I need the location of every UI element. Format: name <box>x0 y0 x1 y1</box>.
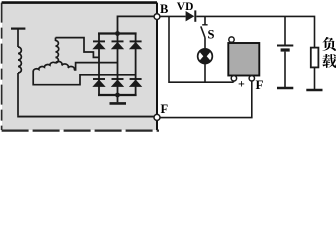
diode VD5 (lower middle) <box>112 78 124 80</box>
wire B branch down to lower rail <box>169 16 234 82</box>
wire regulator F down and to alternator F <box>160 81 252 118</box>
wire top to switch <box>204 16 206 24</box>
resistor load <box>311 48 319 68</box>
field winding rotor coil <box>18 30 21 116</box>
label 负载 (load) <box>322 37 336 68</box>
svg-text:F: F <box>161 102 169 116</box>
svg-text:+: + <box>238 77 245 91</box>
wire + terminal to lower rail <box>233 81 235 82</box>
regulator F terminal <box>249 76 254 81</box>
lamp HL (charge indicator) <box>197 48 213 64</box>
regulator + terminal <box>231 76 236 81</box>
switch S blade <box>201 26 205 37</box>
ground (battery) <box>277 87 293 89</box>
wire field bottom rail to F terminal <box>17 116 154 118</box>
stator winding phase C (right slope coil) <box>56 61 75 70</box>
stator winding phase A (vertical coil) <box>56 38 59 63</box>
wire B to VD anode <box>160 15 186 17</box>
switch S contact tick <box>202 24 207 26</box>
svg-text:B: B <box>160 2 168 16</box>
svg-text:VD: VD <box>177 1 194 13</box>
svg-text:S: S <box>208 28 215 42</box>
diode VD2 (upper middle) <box>112 40 124 42</box>
stator winding phase B (left slope coil) <box>33 62 55 71</box>
node F terminal <box>154 114 160 120</box>
diode VD3 (upper right) <box>130 40 142 42</box>
wire lamp to lower rail <box>204 64 206 82</box>
node B terminal <box>154 14 160 20</box>
wire resistor to ground <box>314 67 316 89</box>
wire VD cathode to load corner <box>196 16 314 47</box>
diode VD6 (lower right) <box>130 78 142 80</box>
svg-text:F: F <box>256 77 264 92</box>
wire bridge - to ground stem <box>117 95 119 102</box>
diode VD4 (lower left) <box>93 78 105 80</box>
alternator housing box <box>2 2 159 130</box>
wire top to battery <box>284 16 286 44</box>
wire phase B to bridge right leg <box>33 71 135 84</box>
battery negative plate <box>281 48 290 51</box>
junction top rail <box>115 31 120 36</box>
ground (field winding top, chassis) <box>11 28 25 30</box>
wire battery to ground <box>284 52 286 87</box>
rectifier bridge rails and legs <box>98 34 137 96</box>
junction bottom rail <box>115 93 120 98</box>
wire phase A to bridge left leg <box>56 38 100 58</box>
diode VD1 (upper left) <box>93 40 105 42</box>
diode VD (isolation) <box>186 11 195 21</box>
wire bridge + output to B terminal <box>118 16 155 33</box>
ground (bridge negative, chassis) <box>110 102 127 105</box>
ground (load) <box>306 89 322 91</box>
wire switch to lamp <box>204 38 206 49</box>
regulator box <box>228 43 259 76</box>
regulator top terminal <box>229 37 234 42</box>
battery positive plate <box>277 45 293 47</box>
wire phase C to bridge middle leg <box>76 63 118 71</box>
